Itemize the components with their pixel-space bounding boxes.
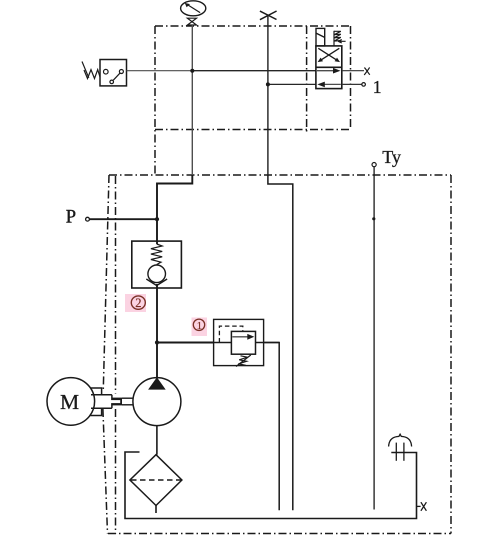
relief valve through line [214, 342, 232, 344]
port Ty circle [372, 163, 376, 167]
solenoid coil [316, 28, 325, 46]
check valve spring [151, 244, 162, 265]
junction artifact on Ty line [372, 217, 375, 220]
valve return spring [334, 31, 346, 46]
wire: relief branch line [157, 342, 214, 344]
plugged port x mark [364, 67, 370, 75]
port 1 circle [362, 83, 366, 87]
wire: return line step into enclosure [268, 175, 293, 510]
test point coupling under gauge [187, 18, 196, 25]
label 1 [373, 77, 382, 97]
pressure switch [82, 60, 127, 86]
wire: valve upper port to plugged x [342, 70, 364, 72]
svg-text:M: M [60, 390, 79, 414]
wire: pressure line check valve to pump [156, 284, 158, 378]
hydraulic pump P1 [133, 377, 181, 425]
enclosure: upper control box dash-dot border [155, 26, 351, 175]
check valve C2 box [132, 241, 182, 288]
wire: gauge drop line [191, 25, 193, 175]
label Ty [382, 147, 401, 167]
relief valve inner square [231, 331, 255, 354]
wire: pressure line step into enclosure [157, 175, 192, 244]
wire: Ty line [373, 167, 375, 510]
valve straight arrows (lower position) [317, 68, 341, 87]
wire: relief outlet line [256, 343, 280, 511]
enclosure: main power-unit dash-dot border [103, 175, 451, 534]
junction: gauge line x switch line [190, 69, 194, 73]
svg-text:P: P [66, 207, 76, 227]
solenoid valve body [316, 46, 342, 89]
relief valve R1 outer box [214, 319, 264, 365]
wire: P line [89, 218, 157, 220]
relief valve spring with arrow [236, 355, 251, 367]
svg-text:1: 1 [197, 320, 203, 332]
motor flange [91, 388, 102, 416]
label circled 2 [125, 294, 146, 312]
svg-text:Ty: Ty [382, 147, 401, 167]
port P label [66, 207, 76, 227]
tank outline [125, 452, 417, 519]
label circled 1 [192, 318, 208, 337]
svg-text:1: 1 [373, 77, 382, 97]
junction: P line on pressure line [155, 217, 159, 221]
valve crossed-arrows (upper position) [318, 48, 340, 62]
check valve poppet [146, 265, 167, 286]
electric motor M1 [47, 378, 95, 426]
wire: switch line to valve [127, 70, 193, 72]
relief valve pilot dashed line [219, 326, 242, 342]
breather cap [389, 434, 412, 461]
suction filter [130, 455, 182, 513]
port P circle [86, 217, 90, 221]
svg-text:2: 2 [135, 296, 141, 310]
wire: valve lower port to port 1 [342, 83, 362, 85]
junction: relief branch [155, 340, 159, 344]
shaft coupling [91, 395, 133, 408]
wire: pump suction line [156, 426, 158, 455]
wire: valve lower port line from return branch [268, 83, 316, 85]
plugged port X at top of return branch [260, 11, 277, 20]
wire: return branch vertical (upper) [267, 15, 269, 175]
drain port X mark [417, 502, 427, 511]
junction: return branch x valve lower port [266, 82, 270, 86]
pressure gauge [181, 1, 206, 16]
relief valve flow arrow [232, 334, 254, 340]
